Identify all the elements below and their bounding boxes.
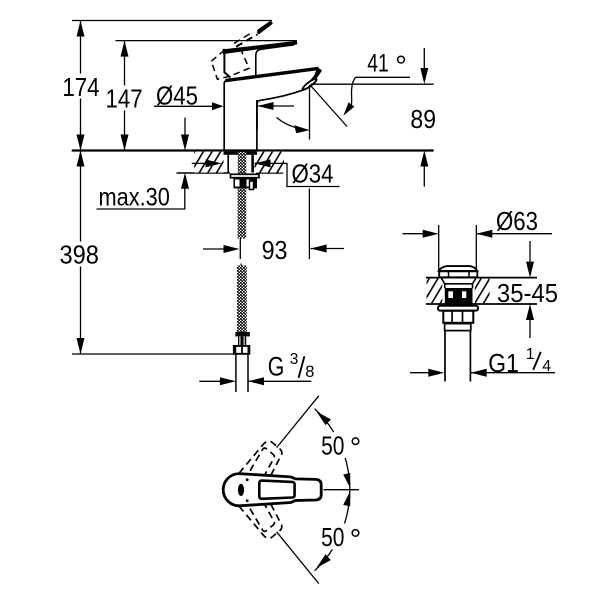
dimension 174 arrow down [77, 135, 85, 151]
hose break line [239, 239, 241, 260]
svg-text:1: 1 [526, 346, 535, 363]
dimension 89 bottom arrow [423, 165, 425, 187]
lever front face [223, 49, 230, 78]
label 50deg lower [318, 524, 363, 550]
rotation arc arrowheads [317, 412, 331, 426]
dimension 93 left arrow [203, 248, 232, 250]
valve deck hatch left [427, 279, 443, 303]
valve cap dome [439, 266, 478, 271]
dimension diameter63 left arrow [403, 233, 432, 235]
svg-text:4: 4 [542, 358, 551, 375]
rotation arc [315, 409, 350, 571]
svg-text:41: 41 [367, 49, 389, 77]
svg-text:3: 3 [290, 351, 299, 368]
handle indicator bean [238, 484, 244, 496]
handle rotation dashed lever upper [239, 441, 282, 476]
deck bottom line left [177, 172, 231, 174]
dimension max.30 lower arrow and leader [97, 180, 185, 209]
valve lock nut [443, 311, 473, 323]
mounting nut [234, 178, 258, 189]
svg-text:G: G [268, 351, 285, 381]
valve body walls [444, 284, 446, 289]
hose end collar [235, 332, 249, 336]
svg-text:174: 174 [62, 72, 99, 102]
valve tailpipe [444, 331, 446, 382]
label 398 [57, 242, 102, 267]
supply hose lower [237, 266, 247, 333]
svg-text:50: 50 [321, 430, 344, 460]
handle pivot dots [246, 478, 249, 481]
svg-text:93: 93 [262, 235, 288, 265]
lever raised dashed top extension [234, 32, 253, 44]
valve deck hatch right [475, 279, 490, 303]
label 50deg upper [318, 432, 363, 458]
lever raised thick underside [259, 23, 271, 32]
deck bottom line right [256, 172, 283, 174]
dimension G3/8 left arrow [199, 380, 228, 382]
dimension 398 vertical line [80, 151, 82, 355]
valve flange [438, 306, 478, 311]
svg-text:35-45: 35-45 [497, 280, 558, 308]
stream vertical reference line [309, 85, 311, 140]
label 174 [60, 74, 104, 99]
dimension 41deg underline [356, 76, 411, 78]
svg-text:Ø63: Ø63 [496, 208, 538, 236]
label 147 [103, 86, 147, 111]
deck hatching left [194, 152, 223, 173]
dimension 89 top arrow [423, 48, 425, 70]
valve deck top line [426, 277, 537, 279]
dimension 35-45 top arrow [529, 241, 531, 263]
rotation line lower [277, 532, 319, 584]
valve extension line left [438, 225, 440, 271]
dimension diameter45 right arrow [258, 105, 295, 107]
dimension 174 arrow up [77, 21, 85, 37]
hose end pipe [235, 355, 237, 392]
dimension 147 arrow down [121, 135, 129, 151]
dimension diameter34 right arrow and leader [255, 163, 340, 186]
svg-text:398: 398 [60, 239, 99, 269]
dimension G3/8 right arrow [248, 380, 311, 382]
valve neck frustum [442, 278, 476, 283]
spout aerator [301, 77, 317, 91]
valve body window band [445, 288, 473, 305]
svg-text:89: 89 [410, 104, 436, 134]
faucet base seal band [224, 152, 258, 155]
svg-text:G1: G1 [488, 348, 519, 378]
dimension 174 vertical line [80, 21, 82, 151]
svg-text:max.30: max.30 [99, 183, 170, 211]
svg-text:50: 50 [321, 522, 344, 552]
dimension 398 arrow up [77, 151, 85, 167]
extension line top (174) [72, 20, 272, 22]
deck hatching right [255, 152, 285, 173]
svg-text:Ø34: Ø34 [292, 161, 334, 189]
nut side stub [250, 181, 254, 190]
svg-text:Ø45: Ø45 [156, 83, 198, 111]
hose end nut [233, 345, 250, 355]
dimension G1 1/4 left arrow [410, 372, 437, 374]
valve deck bottom line [426, 303, 537, 305]
spout bottom edge [257, 89, 305, 130]
lever raised thin top edge [257, 21, 270, 30]
deck surface line [72, 149, 434, 151]
spout top ridge [226, 68, 319, 80]
faucet body right edge [256, 100, 258, 151]
dimension G1 1/4 right arrow [471, 372, 555, 374]
flow arc arrow [277, 118, 302, 129]
hose break stub [240, 264, 242, 267]
shank threaded column [238, 152, 246, 178]
valve cap band [439, 271, 477, 277]
valve collar [445, 324, 471, 331]
dimension 147 vertical line [124, 41, 126, 151]
extension line (147) [116, 40, 298, 42]
dimension 41deg arc arrow [352, 77, 356, 104]
dimension max.30 upper arrow [184, 118, 186, 137]
lever closed underside and neck [256, 45, 294, 76]
rotation line upper [277, 396, 319, 448]
shank tube left wall [227, 155, 229, 173]
dimension diameter63 right arrow [476, 233, 552, 235]
svg-text:147: 147 [106, 83, 143, 113]
svg-text:8: 8 [305, 363, 314, 381]
handle top view body [223, 474, 321, 506]
stream angled reference line [311, 86, 348, 127]
lever raised dashed underside extension [236, 34, 257, 46]
dimension 35-45 bottom arrow [529, 318, 531, 338]
supply hose upper [238, 189, 247, 239]
handle base raised dashed outline [211, 49, 249, 79]
lever closed (solid) [223, 41, 298, 54]
handle rotation dashed lever lower [239, 503, 282, 538]
dimension 398 arrow down [77, 338, 85, 354]
extension line spout height (89) [311, 83, 434, 85]
dimension 147 arrow up [121, 41, 129, 57]
reference line bottom (398) [72, 353, 250, 355]
diameter34 extension line down [308, 189, 310, 260]
valve extension line right [475, 225, 477, 271]
dimension diameter45 left arrow [154, 105, 216, 107]
dimension diameter34 left arrow [192, 162, 214, 164]
handle top view window [259, 481, 294, 499]
dimension 93 right arrow [311, 248, 344, 250]
spout tip wedge [304, 67, 322, 90]
mounting flange washer [231, 174, 260, 177]
shank tube right wall [251, 155, 254, 173]
faucet body left edge [224, 80, 227, 151]
handle centerline [324, 489, 360, 491]
